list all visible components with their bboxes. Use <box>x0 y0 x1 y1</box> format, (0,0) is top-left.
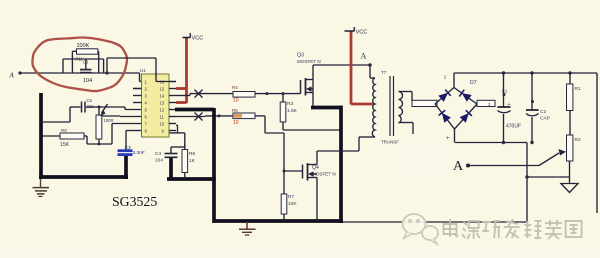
wire: R4 to Q3 gate <box>255 92 301 95</box>
capacitor C2 CAP <box>526 73 550 143</box>
svg-text:10K: 10K <box>288 201 297 207</box>
wire: U1 pin 12 thick bus <box>175 108 214 112</box>
wire: U1 pin 11 to R5 (with x mark) <box>176 113 233 121</box>
annotation: hand-drawn red circle <box>32 37 127 91</box>
svg-text:104: 104 <box>83 78 92 84</box>
svg-text:SG3525: SG3525 <box>112 194 157 209</box>
svg-text:12: 12 <box>160 108 165 113</box>
wire: output top rail <box>454 71 597 74</box>
svg-text:R3: R3 <box>287 101 293 107</box>
wire: thick right vertical <box>339 106 343 224</box>
power VCC (left) <box>176 33 203 103</box>
svg-text:A: A <box>453 159 464 174</box>
wire: U1 pin 8 to C3 <box>126 131 142 151</box>
svg-text:11: 11 <box>160 115 165 120</box>
resistor R8 15K <box>41 128 87 148</box>
wire: pin 16 loop over the top <box>107 58 176 82</box>
svg-text:R8: R8 <box>61 128 67 133</box>
svg-text:VCC: VCC <box>192 36 204 42</box>
wire: U1 pin 7 to pot bottom / R8 <box>87 124 142 146</box>
svg-text:13: 13 <box>160 101 165 106</box>
U1 left pin stubs <box>133 89 142 103</box>
wire: output right vertical <box>596 73 598 213</box>
wire: secondary bottom stub <box>399 123 414 135</box>
capacitor C1 470UF <box>498 73 522 143</box>
wire: node A2 to transformer primary <box>370 65 375 78</box>
wire: Q4 drain to transformer <box>317 137 375 151</box>
svg-text:15: 15 <box>160 87 165 92</box>
wire: thick bottom rail <box>213 219 344 223</box>
svg-text:T7: T7 <box>381 70 387 75</box>
svg-text:C6: C6 <box>83 60 89 65</box>
wire: secondary top to bridge <box>399 92 426 108</box>
potentiometer 100R <box>96 104 114 144</box>
resistor R6 1K <box>182 143 196 179</box>
resistor R5 10 <box>232 108 255 126</box>
svg-text:10: 10 <box>160 122 165 127</box>
wire: Q3 drain to node A2 <box>313 65 370 93</box>
svg-text:C3: C3 <box>125 145 131 151</box>
svg-text:R7: R7 <box>288 194 294 200</box>
capacitor C6 104 <box>63 51 104 84</box>
svg-text:MOSFET N: MOSFET N <box>297 59 321 64</box>
svg-text:R4: R4 <box>232 85 238 90</box>
svg-text:U1: U1 <box>140 68 146 73</box>
wire: Q4 source to bottom rail <box>316 151 318 221</box>
capacitor C4 104 <box>155 147 185 164</box>
wire: thick bus vertical <box>212 108 216 223</box>
svg-text:3.3nF: 3.3nF <box>133 150 145 156</box>
watermark icon (chat bubbles) <box>403 214 439 244</box>
potentiometer R2 <box>539 135 581 166</box>
svg-text:D7: D7 <box>470 80 477 86</box>
svg-text:10: 10 <box>233 98 239 104</box>
resistor R11 100K <box>72 43 98 62</box>
svg-text:1K: 1K <box>189 158 196 164</box>
wire: C3 to ground bus (thick) <box>124 156 128 179</box>
wire: C5/pot top to U1 pin 5 <box>99 107 142 110</box>
svg-text:C4: C4 <box>155 151 161 157</box>
wire: R3 bottom to source bus <box>283 129 341 131</box>
power VCC (right) <box>345 27 374 105</box>
svg-text:Q3: Q3 <box>297 53 304 59</box>
node A3 (feedback) <box>453 159 539 174</box>
transistor Q3 MOSFET N <box>297 53 321 96</box>
svg-text:CAP: CAP <box>540 116 550 122</box>
transformer T7 <box>372 70 402 145</box>
svg-text:+: + <box>446 136 450 142</box>
bridge rectifier D7 <box>412 73 495 143</box>
svg-text:1.5K: 1.5K <box>287 108 298 114</box>
wire: thick ground bus (left vertical) <box>39 93 43 179</box>
ground (middle earth) <box>239 222 256 235</box>
resistor R1 <box>567 73 581 135</box>
svg-text:222: 222 <box>87 104 95 109</box>
resistor R4 10 <box>232 85 255 104</box>
wire: C4 to thick rail (thick lead) <box>169 158 173 180</box>
svg-text:14: 14 <box>160 94 165 99</box>
svg-text:R6: R6 <box>189 151 195 157</box>
IC U1 SG3525 <box>140 68 169 137</box>
text SG3525 <box>112 194 157 209</box>
wire: node A1 to RC network <box>18 71 139 74</box>
node A2 <box>361 52 372 67</box>
svg-text:C1: C1 <box>502 89 508 94</box>
svg-text:A: A <box>9 72 15 80</box>
wire: U1 pin 14 to R4 (with x mark) <box>176 90 233 98</box>
wire: Q3 source to thick bus <box>311 93 341 108</box>
ground (left earth) <box>33 179 50 196</box>
wire: pot right to U1 pin 6 <box>102 115 142 118</box>
watermark text 电源研发精英圈 <box>444 219 582 239</box>
wire: R2 bottom to ground rail <box>527 161 570 177</box>
capacitor C3 3.3nF <box>118 145 145 156</box>
svg-text:R5: R5 <box>232 108 238 113</box>
wire: thick bus lower rail <box>167 177 216 181</box>
wire: thick ground bus (bottom-left rail) <box>39 175 128 179</box>
svg-text:A: A <box>361 52 367 61</box>
svg-text:C2: C2 <box>540 109 546 115</box>
svg-text:100K: 100K <box>77 43 90 49</box>
node A (left) <box>9 72 15 80</box>
wire: U1 pins 9/10 to C4/R6 <box>169 125 185 147</box>
ground (right triangle) <box>561 177 578 193</box>
svg-text:104: 104 <box>155 158 163 164</box>
wire: bottom rail down to ground return <box>343 143 529 223</box>
svg-text:+: + <box>508 102 511 108</box>
transistor Q4 MOSFET N <box>303 163 336 181</box>
wire: R5 to Q4 gate <box>255 116 302 173</box>
capacitor C5 222 <box>41 98 99 122</box>
svg-text:10: 10 <box>233 120 239 126</box>
wire: RC network to U1 pin 1 <box>105 71 147 88</box>
U1 right pin stubs <box>169 82 176 131</box>
svg-text:R2: R2 <box>575 137 581 143</box>
svg-text:C5: C5 <box>87 98 93 103</box>
svg-text:R1: R1 <box>575 86 581 92</box>
wire: output bottom rail <box>455 141 534 144</box>
svg-text:470UF: 470UF <box>506 124 521 130</box>
svg-text:15K: 15K <box>60 142 70 148</box>
svg-text:VCC: VCC <box>356 30 368 36</box>
svg-text:Q4: Q4 <box>312 165 319 171</box>
resistor R3 1.5K <box>280 94 297 130</box>
svg-text:100R: 100R <box>104 118 114 123</box>
svg-text:TRANSF: TRANSF <box>381 140 399 145</box>
resistor R7 10K <box>281 171 297 221</box>
